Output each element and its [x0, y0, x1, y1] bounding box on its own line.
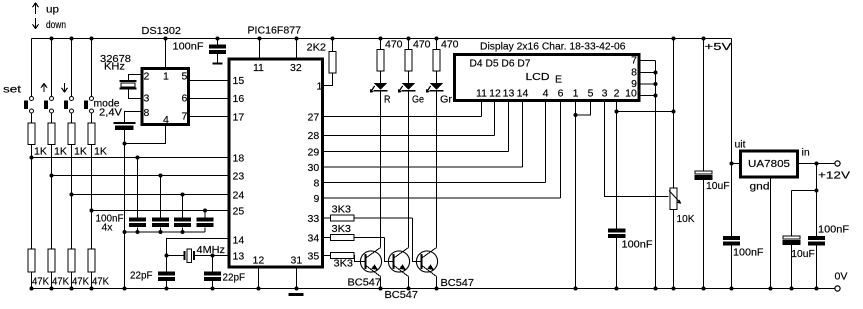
- svg-text:+12V: +12V: [818, 170, 850, 182]
- svg-text:1K: 1K: [54, 146, 67, 158]
- svg-text:1: 1: [317, 81, 323, 93]
- svg-text:4: 4: [543, 88, 549, 100]
- svg-text:9: 9: [631, 78, 637, 90]
- svg-text:LCD: LCD: [526, 71, 550, 83]
- svg-text:100nF: 100nF: [622, 239, 653, 251]
- svg-text:1K: 1K: [74, 146, 87, 158]
- svg-text:13: 13: [233, 251, 245, 263]
- svg-text:2: 2: [614, 88, 620, 100]
- svg-text:24: 24: [233, 190, 245, 202]
- svg-text:down: down: [46, 19, 66, 31]
- svg-text:in: in: [802, 147, 810, 159]
- svg-text:25: 25: [233, 206, 245, 218]
- svg-text:5: 5: [588, 88, 594, 100]
- svg-text:3: 3: [144, 93, 150, 105]
- svg-text:Display 2x16 Char. 18-33-42-06: Display 2x16 Char. 18-33-42-06: [480, 41, 626, 53]
- svg-text:7: 7: [182, 111, 188, 123]
- svg-text:1: 1: [573, 88, 579, 100]
- svg-text:9: 9: [314, 193, 320, 205]
- svg-text:47K: 47K: [32, 276, 49, 288]
- svg-text:470: 470: [413, 39, 431, 51]
- svg-text:12: 12: [253, 255, 265, 267]
- svg-text:Gr: Gr: [440, 94, 453, 106]
- svg-text:D4 D5 D6 D7: D4 D5 D6 D7: [470, 58, 531, 70]
- svg-text:1K: 1K: [34, 146, 47, 158]
- svg-text:28: 28: [308, 130, 320, 142]
- svg-text:2: 2: [144, 71, 150, 83]
- svg-text:8: 8: [144, 107, 150, 119]
- svg-text:6: 6: [558, 88, 564, 100]
- svg-text:10uF: 10uF: [791, 248, 815, 260]
- svg-text:10uF: 10uF: [706, 180, 730, 192]
- svg-text:DS1302: DS1302: [142, 25, 182, 37]
- svg-text:27: 27: [308, 112, 320, 124]
- svg-text:+5V: +5V: [705, 41, 732, 53]
- svg-text:7: 7: [631, 55, 637, 67]
- svg-text:0V: 0V: [835, 271, 848, 283]
- svg-text:34: 34: [308, 233, 320, 245]
- svg-text:set: set: [3, 84, 21, 96]
- svg-text:22pF: 22pF: [130, 270, 153, 282]
- svg-text:470: 470: [385, 39, 403, 51]
- svg-text:uit: uit: [735, 139, 746, 151]
- svg-text:2K2: 2K2: [307, 42, 327, 54]
- svg-text:Ge: Ge: [412, 94, 424, 106]
- svg-text:BC547: BC547: [385, 289, 419, 301]
- svg-text:13: 13: [503, 88, 515, 100]
- svg-text:100nF: 100nF: [733, 247, 764, 259]
- svg-text:3K3: 3K3: [334, 258, 354, 270]
- svg-text:47K: 47K: [92, 276, 109, 288]
- svg-text:BC547: BC547: [441, 277, 475, 289]
- svg-text:16: 16: [233, 93, 245, 105]
- svg-text:KHz: KHz: [104, 61, 125, 73]
- svg-text:2,4V: 2,4V: [99, 107, 122, 119]
- svg-text:47K: 47K: [72, 276, 89, 288]
- svg-text:14: 14: [233, 235, 245, 247]
- svg-text:6: 6: [182, 93, 188, 105]
- svg-text:8: 8: [314, 178, 320, 190]
- svg-text:gnd: gnd: [750, 181, 770, 193]
- svg-text:22pF: 22pF: [223, 272, 246, 284]
- svg-text:33: 33: [308, 213, 320, 225]
- svg-text:BC547: BC547: [348, 277, 382, 289]
- svg-text:E: E: [555, 74, 562, 86]
- svg-text:12: 12: [489, 88, 501, 100]
- svg-text:3K3: 3K3: [332, 204, 352, 216]
- svg-text:30: 30: [308, 162, 320, 174]
- svg-text:29: 29: [308, 147, 320, 159]
- svg-text:10K: 10K: [677, 213, 695, 225]
- svg-text:5: 5: [182, 71, 188, 83]
- svg-text:4: 4: [163, 114, 169, 126]
- svg-text:31: 31: [291, 255, 303, 267]
- svg-text:11: 11: [476, 88, 487, 100]
- svg-text:8: 8: [631, 67, 637, 79]
- svg-text:UA7805: UA7805: [748, 158, 790, 170]
- svg-text:35: 35: [308, 251, 320, 263]
- svg-text:470: 470: [441, 39, 459, 51]
- svg-text:3: 3: [602, 88, 608, 100]
- svg-text:47K: 47K: [52, 276, 69, 288]
- svg-text:32: 32: [290, 62, 302, 74]
- svg-text:100nF: 100nF: [818, 224, 849, 236]
- svg-text:14: 14: [517, 88, 529, 100]
- svg-text:15: 15: [233, 75, 245, 87]
- svg-text:4MHz: 4MHz: [197, 244, 226, 256]
- svg-text:23: 23: [233, 171, 245, 183]
- svg-text:4x: 4x: [102, 222, 114, 234]
- svg-text:up: up: [46, 4, 59, 16]
- svg-text:11: 11: [253, 62, 264, 74]
- svg-text:PIC16F877: PIC16F877: [248, 25, 302, 37]
- svg-text:17: 17: [233, 112, 245, 124]
- svg-text:1: 1: [163, 71, 169, 83]
- svg-text:3K3: 3K3: [332, 223, 352, 235]
- svg-text:100nF: 100nF: [173, 41, 204, 53]
- svg-text:R: R: [384, 94, 391, 106]
- svg-text:18: 18: [233, 153, 245, 165]
- svg-text:1K: 1K: [94, 146, 107, 158]
